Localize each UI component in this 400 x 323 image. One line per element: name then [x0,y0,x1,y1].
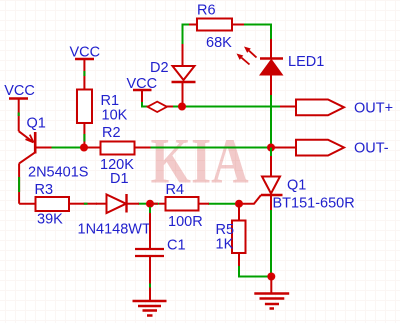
power VCC 3 [127,76,158,107]
svg-text:R4: R4 [166,182,185,198]
svg-text:1N4148WT: 1N4148WT [78,222,151,238]
diode D2 [172,25,196,107]
resistor R5 [232,204,246,268]
svg-text:VCC: VCC [4,83,35,99]
svg-text:D2: D2 [150,60,169,76]
capacitor C1 [135,204,164,301]
wire R5 bottom to ground node [239,266,271,277]
LED1 [260,39,283,96]
svg-text:100R: 100R [168,214,203,230]
ground under C1 [133,301,167,316]
svg-text:LED1: LED1 [288,54,324,70]
resistor R6 [189,19,244,31]
svg-text:D1: D1 [110,171,129,187]
svg-text:Q1: Q1 [287,178,306,194]
wire LED1 to OUT- node [270,95,272,148]
svg-text:10K: 10K [102,108,128,124]
svg-text:R6: R6 [197,3,216,19]
svg-text:VCC: VCC [70,45,101,61]
wire R6 right leg [244,25,271,41]
svg-text:R2: R2 [102,125,121,141]
thyristor Q1 BT151-650R [239,148,283,212]
connector OUT- [271,140,344,156]
svg-text:OUT-: OUT- [354,141,389,157]
svg-text:OUT+: OUT+ [354,101,393,117]
svg-text:68K: 68K [206,35,232,51]
wire R3 to D1 [83,203,97,205]
wire thyristor cathode to ground node [270,210,272,277]
node B junction dot (D1 / R4 / C1) [146,200,154,208]
node gate junction dot (R4 / R5 / gate) [235,200,243,208]
svg-text:39K: 39K [37,212,63,228]
wire Q1 base to node A [51,147,84,149]
svg-text:1K: 1K [216,237,234,253]
wire R2 to OUT- junction [150,147,271,149]
svg-text:2N5401S: 2N5401S [28,165,88,181]
wire R6 left leg [183,25,198,45]
node A junction dot (Q1 base / R1 / R2) [80,144,88,152]
svg-text:BT151-650R: BT151-650R [273,196,355,212]
connector OUT+ [280,100,344,116]
node C junction dot (VCC / D2 / OUT+ wire) [178,103,186,111]
resistor R2 [84,142,151,155]
resistor R1 [77,90,92,148]
ground under thyristor [254,277,289,309]
LED1 emission arrows [237,47,257,65]
resistor R4 [146,197,209,211]
wire D1 to node B [138,203,146,205]
svg-text:Q1: Q1 [27,116,46,132]
wire node B to R4 [152,203,159,205]
diamond no-ERC marker [148,102,174,112]
node OUT- junction dot [267,144,275,152]
wire R4 to gate node [208,203,239,205]
svg-text:VCC: VCC [127,76,158,92]
wire OUT+ row [142,106,280,108]
svg-text:C1: C1 [167,238,186,254]
node ground junction dot [267,273,275,281]
transistor Q1 2N5401S [19,131,52,204]
svg-text:R3: R3 [35,182,54,198]
diode D1 1N4148WT [96,194,139,213]
power VCC 1 [4,83,35,131]
power VCC 2 [70,45,101,90]
resistor R3 [19,197,83,211]
